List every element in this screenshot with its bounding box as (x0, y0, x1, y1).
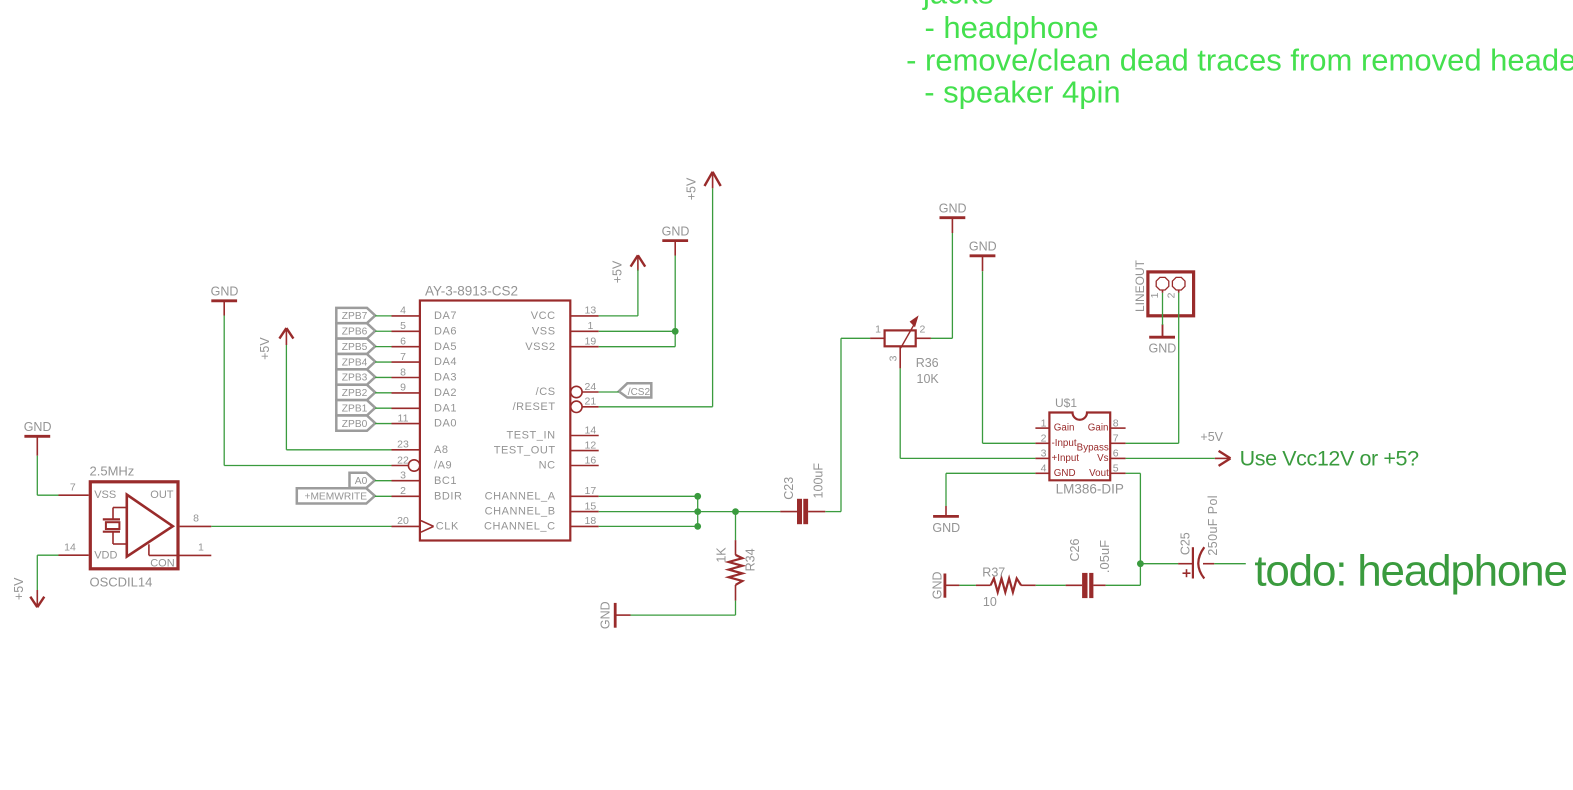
svg-text:ZPB5: ZPB5 (342, 342, 368, 353)
svg-text:TEST_OUT: TEST_OUT (494, 445, 556, 457)
svg-text:DA2: DA2 (434, 387, 457, 399)
svg-text:LM386-DIP: LM386-DIP (1056, 482, 1124, 497)
svg-text:8: 8 (193, 513, 199, 525)
svg-text:+5V: +5V (258, 337, 272, 360)
svg-text:10K: 10K (917, 372, 940, 386)
svg-text:VCC: VCC (531, 310, 556, 322)
svg-text:2: 2 (1041, 433, 1047, 445)
svg-text:Bypass: Bypass (1077, 442, 1109, 453)
svg-text:3: 3 (1041, 448, 1047, 460)
svg-text:CHANNEL_A: CHANNEL_A (485, 490, 556, 502)
svg-text:1: 1 (1041, 417, 1047, 429)
svg-text:R36: R36 (916, 356, 939, 370)
svg-text:8: 8 (400, 366, 406, 378)
svg-text:17: 17 (585, 485, 597, 497)
svg-text:R37: R37 (982, 566, 1005, 580)
svg-text:7: 7 (400, 351, 406, 363)
svg-text:Vs: Vs (1097, 453, 1109, 464)
svg-text:C23: C23 (782, 477, 796, 500)
svg-text:OUT: OUT (150, 489, 174, 501)
svg-text:ZPB2: ZPB2 (342, 388, 368, 399)
svg-text:12: 12 (585, 439, 597, 451)
svg-text:1K: 1K (714, 547, 728, 563)
svg-text:R34: R34 (744, 548, 758, 571)
svg-text:ZPB4: ZPB4 (342, 357, 368, 368)
svg-text:ZPB3: ZPB3 (342, 373, 368, 384)
svg-text:GND: GND (211, 285, 239, 299)
svg-text:+5V: +5V (611, 260, 625, 283)
svg-text:VSS: VSS (94, 489, 116, 501)
svg-text:4: 4 (1041, 463, 1047, 475)
svg-text:1: 1 (1149, 292, 1161, 298)
svg-text:DA6: DA6 (434, 325, 457, 337)
svg-text:/CS2: /CS2 (628, 387, 651, 398)
svg-text:.05uF: .05uF (1097, 540, 1112, 573)
svg-text:GND: GND (931, 571, 945, 599)
svg-text:Gain: Gain (1088, 423, 1109, 434)
svg-text:18: 18 (585, 515, 597, 527)
svg-text:+5V: +5V (12, 577, 26, 600)
svg-text:GND: GND (969, 240, 997, 254)
svg-text:15: 15 (585, 500, 597, 512)
svg-text:GND: GND (1054, 468, 1076, 479)
svg-text:AY-3-8913-CS2: AY-3-8913-CS2 (425, 284, 518, 299)
svg-text:24: 24 (585, 381, 597, 393)
svg-text:2: 2 (920, 324, 926, 336)
svg-text:VSS2: VSS2 (525, 341, 555, 353)
svg-text:ZPB0: ZPB0 (342, 419, 368, 430)
svg-text:todo: headphone: todo: headphone (1254, 547, 1566, 596)
svg-text:- remove/clean dead traces fro: - remove/clean dead traces from removed … (906, 43, 1573, 78)
svg-text:14: 14 (64, 541, 76, 553)
svg-text:16: 16 (585, 454, 597, 466)
svg-text:DA1: DA1 (434, 402, 457, 414)
svg-text:/CS: /CS (536, 386, 556, 398)
svg-text:GND: GND (24, 420, 52, 434)
svg-text:- speaker 4pin: - speaker 4pin (924, 74, 1120, 109)
svg-text:ZPB7: ZPB7 (342, 311, 368, 322)
svg-text:4: 4 (400, 305, 406, 317)
svg-text:19: 19 (585, 336, 597, 348)
svg-text:250uF Pol: 250uF Pol (1206, 495, 1220, 556)
svg-text:2.5MHz: 2.5MHz (90, 463, 135, 478)
svg-text:+5V: +5V (1200, 430, 1223, 444)
svg-text:CHANNEL_B: CHANNEL_B (485, 506, 556, 518)
svg-text:NC: NC (539, 460, 556, 472)
svg-text:Use Vcc12V or +5?: Use Vcc12V or +5? (1240, 446, 1419, 470)
svg-text:21: 21 (585, 396, 597, 408)
svg-text:100uF: 100uF (812, 463, 826, 499)
svg-text:9: 9 (400, 382, 406, 394)
svg-text:ZPB1: ZPB1 (342, 403, 368, 414)
svg-text:6: 6 (1113, 448, 1119, 460)
svg-text:10: 10 (983, 595, 997, 609)
svg-text:CLK: CLK (436, 521, 459, 533)
svg-text:OSCDIL14: OSCDIL14 (90, 575, 153, 590)
svg-text:1: 1 (198, 542, 204, 554)
svg-text:Vout: Vout (1089, 468, 1109, 479)
svg-text:+MEMWRITE: +MEMWRITE (305, 492, 368, 503)
svg-text:/A9: /A9 (434, 460, 452, 472)
svg-text:LINEOUT: LINEOUT (1133, 259, 1147, 312)
svg-text:3: 3 (887, 355, 899, 361)
svg-text:8: 8 (1113, 417, 1119, 429)
svg-text:VSS: VSS (532, 325, 556, 337)
svg-text:jacks: jacks (922, 0, 994, 11)
svg-text:ZPB6: ZPB6 (342, 327, 368, 338)
svg-text:5: 5 (1113, 463, 1119, 475)
svg-text:6: 6 (400, 336, 406, 348)
svg-text:1: 1 (587, 320, 593, 332)
svg-text:GND: GND (599, 601, 613, 629)
svg-text:7: 7 (70, 481, 76, 493)
svg-text:CON: CON (150, 557, 175, 569)
svg-text:DA3: DA3 (434, 372, 457, 384)
svg-text:/RESET: /RESET (513, 401, 556, 413)
svg-text:7: 7 (1113, 433, 1119, 445)
svg-text:22: 22 (397, 454, 409, 466)
svg-text:DA4: DA4 (434, 356, 457, 368)
svg-text:GND: GND (662, 224, 690, 238)
svg-text:VDD: VDD (94, 550, 117, 562)
svg-text:U$1: U$1 (1055, 396, 1077, 410)
svg-text:-Input: -Input (1052, 438, 1077, 449)
svg-text:+Input: +Input (1052, 453, 1080, 464)
svg-text:+5V: +5V (685, 177, 699, 200)
svg-text:GND: GND (1149, 342, 1177, 356)
svg-text:2: 2 (400, 485, 406, 497)
svg-text:A8: A8 (434, 444, 449, 456)
svg-text:5: 5 (400, 320, 406, 332)
svg-text:A0: A0 (355, 476, 368, 487)
svg-text:BC1: BC1 (434, 475, 457, 487)
svg-text:DA0: DA0 (434, 418, 457, 430)
svg-text:- headphone: - headphone (925, 10, 1099, 45)
svg-text:14: 14 (585, 424, 597, 436)
svg-text:11: 11 (398, 412, 409, 424)
svg-text:GND: GND (939, 202, 967, 216)
svg-text:GND: GND (932, 521, 960, 535)
svg-text:23: 23 (397, 439, 409, 451)
svg-text:TEST_IN: TEST_IN (507, 430, 556, 442)
svg-text:DA7: DA7 (434, 310, 457, 322)
svg-text:13: 13 (585, 305, 597, 317)
svg-text:C26: C26 (1068, 538, 1082, 561)
svg-text:BDIR: BDIR (434, 490, 462, 502)
svg-text:Gain: Gain (1054, 423, 1075, 434)
svg-text:3: 3 (400, 470, 406, 482)
svg-text:CHANNEL_C: CHANNEL_C (484, 521, 556, 533)
svg-text:C25: C25 (1179, 532, 1193, 555)
svg-text:2: 2 (1165, 292, 1177, 298)
svg-text:DA5: DA5 (434, 341, 457, 353)
svg-text:20: 20 (397, 515, 409, 527)
svg-text:1: 1 (875, 324, 881, 336)
